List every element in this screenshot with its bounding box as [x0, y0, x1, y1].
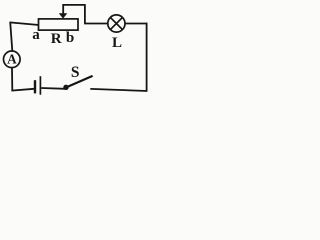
wire: wiper top horizontal: [62, 4, 85, 6]
svg-text:a: a: [32, 27, 40, 43]
battery: short plate: [34, 80, 36, 93]
lamp L: [108, 15, 125, 32]
resistor R (rheostat box): [39, 19, 79, 30]
rheostat wiper arrow: [59, 5, 68, 19]
svg-text:L: L: [112, 35, 122, 51]
wire: right vertical: [146, 23, 148, 92]
svg-text:b: b: [66, 30, 74, 46]
wire: bottom-left horizontal to battery: [11, 89, 34, 91]
ammeter A: [4, 51, 21, 68]
wire: left vertical upper segment (corner to ammeter): [10, 22, 12, 51]
battery: long plate: [39, 76, 41, 95]
wire: battery to switch: [41, 87, 65, 90]
wire: left vertical lower segment (ammeter to bottom corner): [11, 68, 13, 90]
switch S blade (open): [66, 76, 93, 88]
svg-text:A: A: [7, 52, 17, 67]
wire: lamp to top-right corner: [125, 23, 147, 25]
wire: top-left horizontal from left corner to rheostat: [10, 22, 39, 25]
switch S pivot dot: [63, 85, 68, 90]
wire: rheostat to lamp horizontal: [84, 23, 108, 25]
wire: bottom-right horizontal (switch fixed contact to corner): [90, 89, 147, 91]
svg-text:R: R: [51, 31, 62, 47]
wire: wiper right vertical down to lamp wire: [84, 4, 86, 23]
svg-text:S: S: [71, 64, 80, 81]
